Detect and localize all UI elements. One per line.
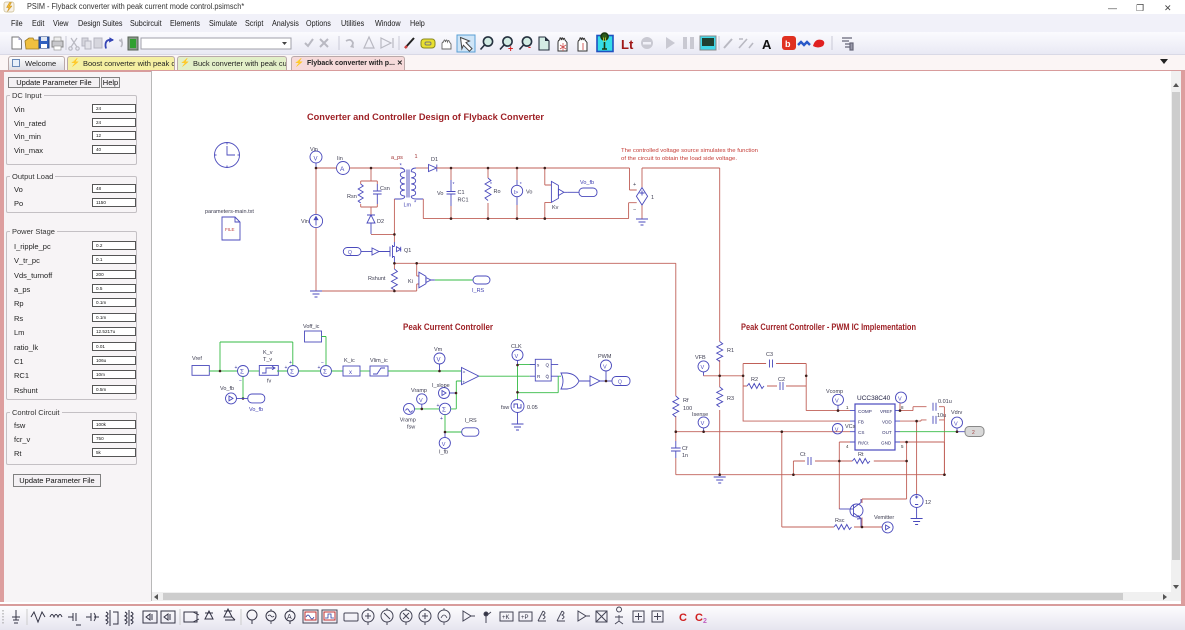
svg-text:10u: 10u bbox=[937, 413, 946, 419]
svg-text:CLK: CLK bbox=[511, 344, 522, 350]
svg-text:4: 4 bbox=[846, 444, 849, 449]
svg-text:D1: D1 bbox=[431, 157, 438, 163]
svg-text:Rf: Rf bbox=[683, 398, 689, 404]
svg-text:COMP: COMP bbox=[858, 409, 872, 414]
svg-text:V: V bbox=[835, 427, 839, 433]
svg-text:Vramp: Vramp bbox=[411, 388, 427, 394]
svg-text:b: b bbox=[785, 39, 791, 49]
svg-text:Rsn: Rsn bbox=[347, 194, 357, 200]
svg-text:Q1: Q1 bbox=[404, 248, 411, 254]
svg-text:V: V bbox=[603, 364, 607, 370]
svg-text:Vo_fb: Vo_fb bbox=[220, 386, 234, 392]
svg-text:VREF: VREF bbox=[880, 409, 892, 414]
svg-text:+: + bbox=[633, 182, 636, 188]
svg-text:Voff_ic: Voff_ic bbox=[303, 324, 320, 330]
svg-text:I_fb: I_fb bbox=[439, 450, 448, 456]
svg-text:The controlled voltage source: The controlled voltage source simulates … bbox=[621, 148, 758, 154]
svg-text:*: * bbox=[414, 201, 417, 207]
svg-text:>: > bbox=[463, 370, 466, 376]
svg-text:C1: C1 bbox=[458, 190, 465, 196]
svg-text:−: − bbox=[239, 379, 242, 385]
svg-text:V: V bbox=[515, 354, 519, 360]
svg-text:Vo_fb: Vo_fb bbox=[580, 180, 594, 186]
svg-text:a_ps: a_ps bbox=[391, 155, 403, 161]
svg-text:8: 8 bbox=[901, 405, 904, 410]
svg-text:Vo_fb: Vo_fb bbox=[249, 407, 263, 413]
svg-text:Isense: Isense bbox=[692, 412, 708, 418]
svg-text:s: s bbox=[537, 363, 540, 368]
svg-text:V: V bbox=[442, 442, 446, 448]
svg-text:V: V bbox=[437, 358, 441, 364]
svg-text:A: A bbox=[287, 614, 292, 621]
svg-text:C2: C2 bbox=[778, 377, 785, 383]
svg-text:Iin: Iin bbox=[337, 156, 343, 162]
svg-text:V: V bbox=[701, 421, 705, 427]
svg-text:I_slope: I_slope bbox=[432, 383, 450, 389]
svg-text:2: 2 bbox=[972, 430, 975, 436]
svg-text:1n: 1n bbox=[682, 453, 688, 459]
svg-text:Converter and Controller Desig: Converter and Controller Design of Flyba… bbox=[307, 112, 544, 123]
svg-text:RC1: RC1 bbox=[458, 198, 469, 204]
svg-text:R2: R2 bbox=[751, 377, 758, 383]
svg-text:VFB: VFB bbox=[695, 355, 706, 361]
svg-text:VDD: VDD bbox=[882, 420, 892, 425]
svg-text:C: C bbox=[679, 612, 687, 624]
svg-text:CS: CS bbox=[858, 430, 864, 435]
svg-text:100: 100 bbox=[683, 406, 692, 412]
svg-text:Cf: Cf bbox=[682, 446, 688, 452]
svg-text:D2: D2 bbox=[377, 219, 384, 225]
svg-text:1: 1 bbox=[415, 154, 418, 160]
svg-text:+: + bbox=[289, 360, 292, 366]
svg-text:PWM: PWM bbox=[598, 354, 612, 360]
svg-text:Ro: Ro bbox=[494, 189, 501, 195]
svg-text:+: + bbox=[508, 44, 513, 54]
svg-text:Σ: Σ bbox=[240, 369, 244, 376]
svg-text:fsw: fsw bbox=[407, 424, 415, 430]
svg-text:Q̄: Q̄ bbox=[546, 374, 550, 380]
svg-text:Vemitter: Vemitter bbox=[874, 515, 894, 521]
svg-text:C3: C3 bbox=[766, 352, 773, 358]
svg-text:Vref: Vref bbox=[192, 356, 202, 362]
svg-text:K_v: K_v bbox=[263, 350, 273, 356]
svg-text:C2: C2 bbox=[695, 612, 707, 625]
svg-text:R1: R1 bbox=[727, 348, 734, 354]
svg-text:Vramp: Vramp bbox=[400, 418, 416, 424]
svg-text:Q: Q bbox=[546, 363, 550, 368]
svg-text:+: + bbox=[462, 380, 465, 385]
svg-text:Peak Current Controller - PWM: Peak Current Controller - PWM IC Impleme… bbox=[741, 322, 916, 333]
svg-text:FB: FB bbox=[858, 420, 864, 425]
svg-text:+: + bbox=[285, 365, 288, 371]
svg-text:A: A bbox=[340, 166, 345, 173]
svg-text:Vcomp: Vcomp bbox=[826, 389, 843, 395]
svg-text:*: * bbox=[453, 182, 455, 188]
svg-text:Rsc: Rsc bbox=[835, 518, 845, 524]
svg-text:Rshunt: Rshunt bbox=[368, 276, 386, 282]
svg-text:1: 1 bbox=[846, 405, 849, 410]
svg-text:Lt: Lt bbox=[621, 37, 634, 52]
svg-text:Vo: Vo bbox=[526, 190, 532, 196]
svg-text:Q: Q bbox=[348, 250, 352, 256]
svg-text:+: + bbox=[440, 416, 443, 422]
svg-text:0.05: 0.05 bbox=[527, 405, 538, 411]
svg-text:-: - bbox=[528, 42, 531, 52]
svg-text:UCC38C40: UCC38C40 bbox=[857, 395, 891, 402]
svg-text:V: V bbox=[701, 365, 705, 371]
svg-text:Peak Current Controller: Peak Current Controller bbox=[403, 322, 493, 333]
svg-text:Vin: Vin bbox=[301, 219, 309, 225]
svg-text:I_RS: I_RS bbox=[465, 418, 478, 424]
svg-text:K_ic: K_ic bbox=[344, 358, 355, 364]
svg-text:I_RS: I_RS bbox=[472, 288, 485, 294]
svg-text:Σ: Σ bbox=[323, 369, 327, 376]
svg-text:T_v: T_v bbox=[263, 357, 272, 363]
svg-text:GND: GND bbox=[881, 441, 892, 446]
svg-text:R3: R3 bbox=[727, 396, 734, 402]
svg-text:Ki: Ki bbox=[408, 279, 413, 285]
svg-text:FILE: FILE bbox=[225, 227, 235, 232]
svg-text:x: x bbox=[349, 370, 352, 376]
svg-text:V: V bbox=[419, 398, 423, 404]
svg-text:VCs: VCs bbox=[845, 424, 856, 430]
svg-text:parameters-main.txt: parameters-main.txt bbox=[205, 209, 254, 215]
svg-text:A: A bbox=[762, 37, 772, 52]
svg-text:I>: I> bbox=[514, 190, 519, 196]
svg-text:Vo: Vo bbox=[437, 191, 443, 197]
svg-text:Ct: Ct bbox=[800, 452, 806, 458]
svg-text:5: 5 bbox=[901, 444, 904, 449]
svg-text:Vdrv: Vdrv bbox=[951, 410, 963, 416]
svg-text:Vin: Vin bbox=[310, 147, 318, 153]
svg-text:Rt: Rt bbox=[858, 452, 864, 458]
svg-text:fsw: fsw bbox=[501, 405, 509, 411]
svg-text:fv: fv bbox=[267, 379, 272, 385]
svg-text:R: R bbox=[537, 374, 541, 379]
svg-text:V: V bbox=[314, 157, 318, 163]
svg-text:Lm: Lm bbox=[404, 203, 412, 209]
svg-text:of the circuit to obtain the l: of the circuit to obtain the load side v… bbox=[621, 156, 737, 162]
svg-text:1: 1 bbox=[651, 195, 654, 201]
svg-text:+: + bbox=[235, 365, 238, 371]
svg-text:Σ: Σ bbox=[290, 369, 294, 376]
svg-text:Csn: Csn bbox=[380, 186, 390, 192]
svg-text:−: − bbox=[633, 207, 636, 213]
svg-text:V: V bbox=[835, 399, 839, 405]
svg-text:Kv: Kv bbox=[552, 205, 559, 211]
svg-text:Rt/Ct: Rt/Ct bbox=[858, 441, 869, 446]
svg-text:+: + bbox=[437, 403, 440, 409]
svg-text:Vlim_ic: Vlim_ic bbox=[370, 358, 388, 364]
svg-text:V: V bbox=[954, 421, 958, 427]
svg-text:Vm: Vm bbox=[434, 347, 443, 353]
svg-text:OUT: OUT bbox=[882, 430, 892, 435]
svg-text:Σ: Σ bbox=[442, 407, 446, 414]
svg-text:Q: Q bbox=[618, 380, 622, 386]
svg-text:12: 12 bbox=[925, 500, 931, 506]
svg-text:+P: +P bbox=[521, 615, 529, 621]
svg-text:−: − bbox=[321, 360, 324, 366]
svg-text:0.01u: 0.01u bbox=[938, 399, 952, 405]
svg-text:V: V bbox=[898, 396, 902, 402]
svg-text:+K: +K bbox=[502, 615, 510, 621]
